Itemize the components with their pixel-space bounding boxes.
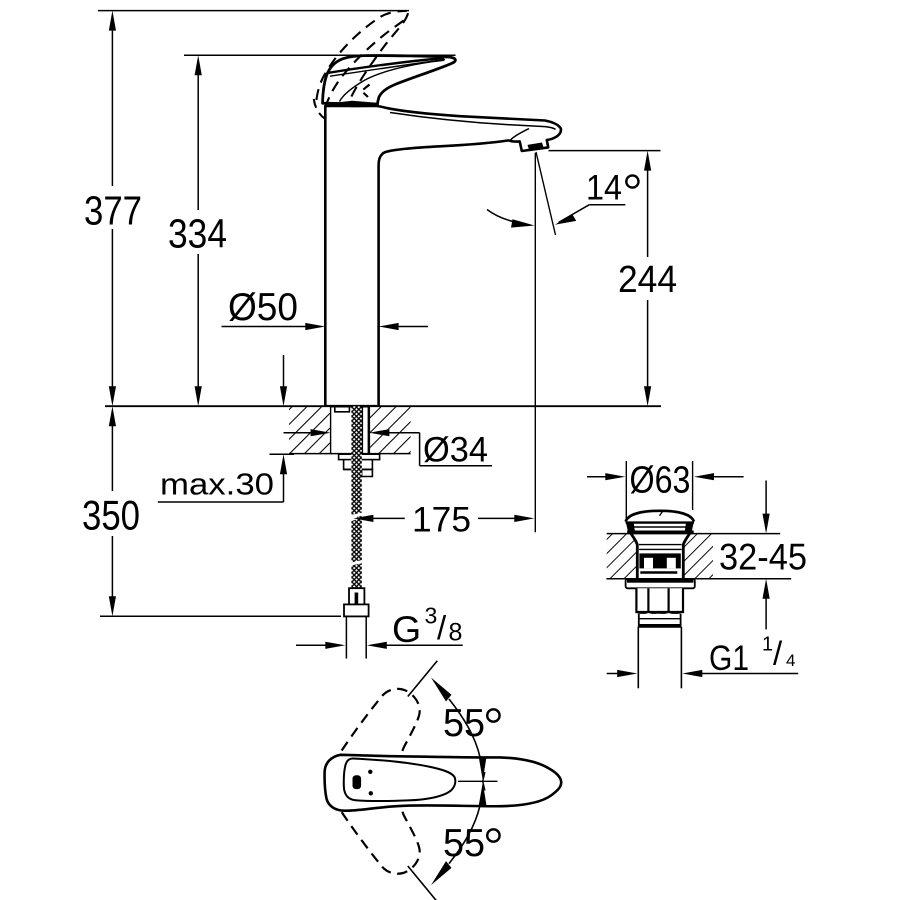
drain dome cap xyxy=(626,511,694,522)
svg-text:55: 55 xyxy=(443,822,485,865)
55 deg arc upper xyxy=(449,699,480,757)
faucet body and spout (side view) xyxy=(325,106,561,406)
lever handle plan view (solid) xyxy=(325,755,562,811)
hose break lower xyxy=(350,560,364,566)
dimension 244 vertical line xyxy=(647,170,649,386)
countertop slab hatched (left) xyxy=(289,407,331,454)
dashed swung handle upper xyxy=(342,689,420,755)
dashed raised handle: notch zigzag xyxy=(362,85,370,98)
svg-text:G1: G1 xyxy=(709,638,749,678)
hose end fitting xyxy=(349,588,364,604)
lever handle (solid, side view) xyxy=(323,56,456,105)
dimension 350 vertical line xyxy=(111,426,113,597)
handle economy mark xyxy=(353,775,362,789)
dimension G1 1/4 xyxy=(607,673,618,675)
dashed swung handle lower xyxy=(342,808,420,874)
arrow 334 bottom xyxy=(195,386,202,406)
svg-text:1: 1 xyxy=(762,633,773,655)
nut lower step xyxy=(362,469,373,476)
mounting washer xyxy=(339,454,380,459)
hose break upper xyxy=(350,512,364,518)
svg-text:G: G xyxy=(392,608,421,650)
svg-text:Ø34: Ø34 xyxy=(423,431,488,470)
wire: hose end reference line (350) xyxy=(100,615,341,617)
drain washer under deck xyxy=(626,579,695,588)
spout head separation line xyxy=(510,129,529,141)
drain ring xyxy=(639,614,681,627)
svg-text:350: 350 xyxy=(82,492,140,539)
dashed raised handle: back curve xyxy=(316,11,406,100)
drain locknut xyxy=(636,588,683,612)
cap top pin tick xyxy=(660,512,663,516)
dashed raised handle: back bottom cap xyxy=(314,99,326,120)
arc overshoot ticks xyxy=(483,781,485,790)
dashed raised handle: middle curve xyxy=(325,19,406,108)
drain body internal lines xyxy=(639,544,682,546)
55 deg extension line upper xyxy=(408,661,438,697)
basin deck top line xyxy=(607,533,781,535)
dimension max.30 xyxy=(280,386,287,406)
cap rim side blocks xyxy=(626,522,635,532)
basin deck bottom line xyxy=(606,578,791,580)
basin deck hatched (left of drain) xyxy=(607,534,638,578)
svg-text:14: 14 xyxy=(586,169,622,208)
spout inner contour line xyxy=(390,113,556,130)
svg-text:3: 3 xyxy=(425,602,438,628)
drain body flare left xyxy=(631,534,637,579)
handle inner contour line lower xyxy=(340,60,445,101)
arrow 244 top xyxy=(644,151,651,171)
dimension 377 vertical line xyxy=(111,30,113,386)
label D34 leader xyxy=(419,433,421,466)
svg-text:55: 55 xyxy=(443,702,485,745)
plan centerline xyxy=(458,780,498,782)
svg-text:4: 4 xyxy=(786,651,795,670)
dimension 32-45 xyxy=(765,481,767,515)
hole wall left xyxy=(330,406,332,453)
handle inner contour line upper xyxy=(330,60,445,77)
wire: top extension line (377 reference, raised handle tip level) xyxy=(98,10,409,12)
shank pipe lines xyxy=(361,406,363,453)
connection tube xyxy=(345,616,347,658)
dimension G3/8 line xyxy=(296,644,326,646)
handle dot lower xyxy=(369,791,373,795)
arrow 244 bottom xyxy=(644,386,651,406)
basin deck hatched (right of drain) xyxy=(684,534,713,578)
svg-text:/: / xyxy=(773,635,783,672)
hole wall right xyxy=(368,406,370,453)
wire: extension line spout outlet (244 reference) xyxy=(549,150,661,152)
dimension D34 xyxy=(284,432,312,434)
dashed raised handle: front curve xyxy=(351,12,408,97)
wire: extension line (334 reference, handle tip level) xyxy=(184,54,456,56)
wire: D63 extension lines xyxy=(625,461,627,520)
handle blade underside (thick) xyxy=(329,58,445,73)
drain overflow window block xyxy=(639,553,680,568)
deck line xyxy=(105,405,661,407)
mounting nut xyxy=(344,460,373,470)
arrow 377 bottom xyxy=(109,386,116,406)
aerator screen xyxy=(528,143,544,150)
svg-text:Ø50: Ø50 xyxy=(228,286,298,329)
drain tailpipe xyxy=(637,627,639,689)
svg-text:334: 334 xyxy=(168,211,227,257)
arrow 350 top xyxy=(109,406,116,426)
slab bottom line xyxy=(289,453,411,455)
shank notch xyxy=(335,406,350,412)
cap rim inner line xyxy=(634,526,686,528)
14 degree tilt line xyxy=(536,152,556,235)
svg-text:8: 8 xyxy=(449,619,463,647)
arrow 334 top xyxy=(195,55,202,75)
dimension 175 xyxy=(353,515,373,522)
label 14 deg leader xyxy=(589,204,625,206)
countertop slab hatched (right) xyxy=(369,407,410,454)
svg-text:244: 244 xyxy=(618,259,677,301)
drain body flare right xyxy=(683,534,689,579)
55 deg extension line lower xyxy=(408,866,438,900)
svg-text:32-45: 32-45 xyxy=(719,537,807,578)
dimension 334 vertical line xyxy=(197,75,199,387)
handle/body seam bar xyxy=(323,101,379,108)
svg-text:175: 175 xyxy=(412,501,471,540)
braided supply hose xyxy=(351,406,361,588)
arrow 377 top xyxy=(109,11,116,31)
svg-text:Ø63: Ø63 xyxy=(630,460,691,502)
swing arc arrow xyxy=(487,210,513,222)
svg-text:max.30: max.30 xyxy=(160,468,274,502)
handle dot upper xyxy=(368,770,372,774)
svg-text:/: / xyxy=(437,609,447,646)
water stream reference line xyxy=(534,153,536,532)
55 deg arc lower xyxy=(449,806,480,864)
dimension D63 xyxy=(587,476,607,478)
arrow 350 bottom xyxy=(109,596,116,616)
hose end nut G3/8 xyxy=(344,604,369,616)
svg-text:377: 377 xyxy=(84,188,142,234)
dimension D50 xyxy=(222,326,306,328)
lever handle plan inner contour xyxy=(344,758,456,801)
